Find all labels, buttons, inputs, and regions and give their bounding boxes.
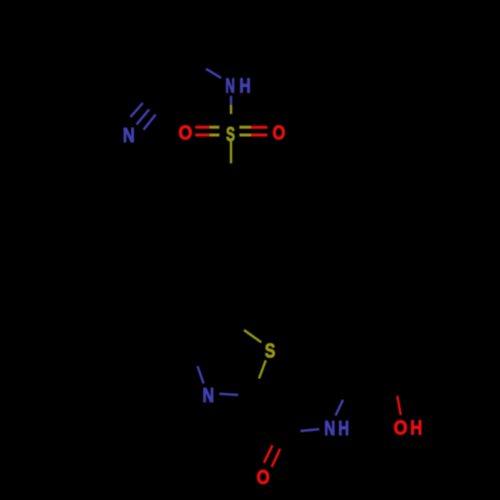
wire C-OH bond (O half)	[397, 396, 400, 415]
svg-text:O: O	[257, 467, 270, 489]
wire N-CH2 bond (N half)	[336, 400, 344, 416]
wire S-C2 bond (S half)	[259, 360, 266, 378]
S=O double bond right	[239, 127, 267, 135]
svg-text:O: O	[178, 123, 192, 145]
sulfonamide NH label	[225, 75, 250, 97]
wire amide C-N bond (N half)	[301, 429, 320, 431]
svg-text:H: H	[239, 75, 250, 97]
amide NH label	[324, 418, 349, 440]
carbonyl C=O double bond (O half)	[264, 445, 280, 467]
wire C5-S bond (S half)	[244, 330, 261, 342]
svg-text:N: N	[324, 418, 335, 440]
wire CH2-NH bond (N half)	[206, 69, 221, 78]
svg-text:O: O	[394, 417, 408, 439]
svg-text:N: N	[203, 385, 215, 407]
svg-text:N: N	[225, 75, 235, 97]
svg-text:O: O	[273, 123, 286, 145]
svg-text:H: H	[410, 417, 422, 439]
wire S-CH3 bond (S half)	[230, 141, 232, 163]
svg-text:H: H	[338, 418, 349, 440]
nitrile triple bond C#N	[131, 103, 156, 130]
wire N-C4 bond (N half)	[198, 366, 204, 383]
wire N-C2 bond (N half)	[219, 394, 238, 395]
wire N-S bond	[230, 96, 232, 114]
S=O double bond left	[195, 127, 219, 135]
hydroxyl OH label	[394, 417, 423, 439]
svg-text:N: N	[123, 125, 135, 147]
svg-text:S: S	[265, 340, 276, 362]
